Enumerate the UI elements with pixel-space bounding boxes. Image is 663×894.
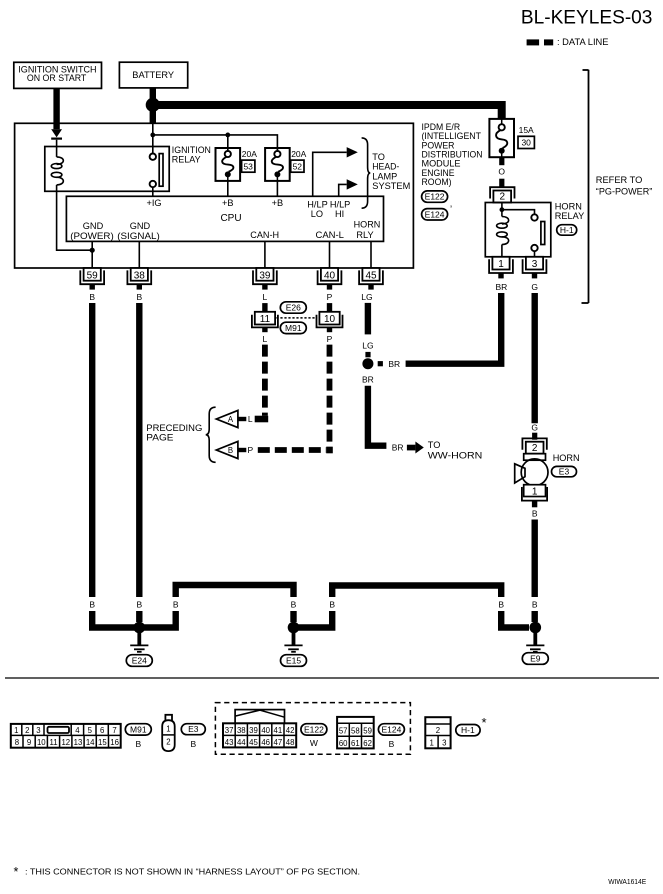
label 20A / 52 bbox=[291, 149, 307, 172]
svg-text:15A: 15A bbox=[519, 125, 534, 135]
svg-text:GND: GND bbox=[130, 221, 151, 231]
svg-text:B: B bbox=[190, 739, 196, 749]
horn circle bbox=[521, 459, 548, 486]
svg-text:7: 7 bbox=[112, 726, 116, 735]
label TO HEAD-LAMP SYSTEM bbox=[372, 152, 410, 191]
tab below horn bbox=[532, 501, 537, 507]
svg-text:BR: BR bbox=[362, 374, 374, 384]
box: BATTERY bbox=[119, 62, 187, 88]
svg-text:60: 60 bbox=[339, 739, 348, 748]
svg-text:H/LP: H/LP bbox=[307, 199, 327, 209]
svg-text:E24: E24 bbox=[132, 656, 147, 666]
svg-text:P: P bbox=[327, 292, 333, 302]
svg-text:39: 39 bbox=[259, 270, 271, 281]
svg-text:38: 38 bbox=[237, 726, 246, 735]
svg-text:E122: E122 bbox=[304, 724, 324, 734]
svg-text:40: 40 bbox=[324, 270, 336, 281]
wire color labels BR / G bbox=[495, 282, 538, 292]
svg-text:M91: M91 bbox=[285, 323, 302, 333]
svg-text:1: 1 bbox=[498, 259, 504, 270]
svg-text:47: 47 bbox=[274, 738, 283, 747]
svg-text:: THIS CONNECTOR IS NOT SHOWN: : THIS CONNECTOR IS NOT SHOWN IN “HARNES… bbox=[25, 867, 360, 877]
svg-text:ON OR START: ON OR START bbox=[27, 73, 87, 83]
bracket: REFER TO PG-POWER bbox=[582, 70, 589, 303]
svg-text:HEAD-: HEAD- bbox=[372, 162, 399, 172]
wire: fuse 53 to +B bbox=[227, 181, 229, 196]
label PRECEDING PAGE bbox=[146, 423, 202, 442]
svg-text:39: 39 bbox=[249, 726, 258, 735]
svg-text:PAGE: PAGE bbox=[146, 432, 173, 442]
wire: GND(POWER) to pin 59 bbox=[91, 241, 93, 268]
wire: coil to pin 1 bbox=[501, 210, 503, 257]
svg-text:L: L bbox=[263, 292, 268, 302]
wire: CAN-H to pin 39 bbox=[264, 241, 266, 268]
svg-text:9: 9 bbox=[27, 738, 31, 747]
svg-text:G: G bbox=[531, 423, 538, 433]
horn body top plate bbox=[524, 454, 546, 461]
svg-text:B: B bbox=[173, 600, 179, 610]
label IPDM E/R (INTELLIGENT POWER DISTRIBUTION MODULE ENGINE ROOM) bbox=[422, 122, 483, 187]
svg-text:57: 57 bbox=[339, 727, 348, 736]
wire BR: splice down to WW-HORN (thick) bbox=[368, 386, 387, 446]
ground E9 bbox=[522, 622, 548, 665]
horn relay pin 2 bbox=[490, 187, 514, 203]
ignition relay coil bbox=[51, 157, 63, 185]
connector pin 10 bbox=[317, 312, 343, 332]
junction: coil return joins GND(POWER) bbox=[90, 248, 95, 253]
brace for preceding page bbox=[206, 407, 216, 462]
svg-text:45: 45 bbox=[249, 738, 258, 747]
svg-text:B: B bbox=[228, 446, 233, 455]
wire: coil to box bottom bbox=[56, 185, 58, 191]
svg-text:11: 11 bbox=[260, 314, 271, 325]
wire: to contact bbox=[502, 210, 535, 215]
svg-text:LG: LG bbox=[362, 341, 373, 351]
svg-text:11: 11 bbox=[49, 738, 57, 747]
data line L (CAN-H) to preceding page A bbox=[262, 345, 268, 416]
svg-text:E124: E124 bbox=[381, 724, 401, 734]
svg-text:2: 2 bbox=[500, 192, 506, 203]
svg-text:8: 8 bbox=[15, 738, 19, 747]
connector detail H-1 bbox=[425, 717, 450, 748]
svg-text:CAN-L: CAN-L bbox=[316, 230, 344, 240]
svg-text:E3: E3 bbox=[559, 467, 570, 477]
svg-text:1: 1 bbox=[166, 725, 170, 734]
svg-text:CPU: CPU bbox=[220, 213, 241, 224]
svg-text:M91: M91 bbox=[130, 724, 147, 734]
svg-text:10: 10 bbox=[324, 314, 336, 325]
box: IGNITION SWITCH ON OR START bbox=[14, 62, 102, 88]
label REFER TO PG-POWER bbox=[596, 175, 653, 197]
connector detail E122 bbox=[223, 710, 296, 748]
wire: pin 2 into relay bbox=[501, 203, 503, 210]
connector label M91 (detail) bbox=[125, 724, 151, 735]
junction dot inside horn relay bbox=[500, 207, 505, 212]
connector detail E124 bbox=[337, 717, 374, 749]
stub to splice bbox=[365, 352, 370, 357]
tab below 15A fuse bbox=[499, 157, 504, 165]
junction: LG/BR splice bbox=[362, 358, 373, 369]
horn relay contact bbox=[531, 214, 544, 251]
svg-text:37: 37 bbox=[225, 726, 234, 735]
svg-text:WW-HORN: WW-HORN bbox=[428, 451, 483, 461]
tab above horn relay pin 2 bbox=[499, 179, 504, 187]
label IGNITION RELAY bbox=[172, 145, 211, 165]
wire: E24 to E15 ground bus (thick) bbox=[139, 611, 175, 628]
svg-text:1: 1 bbox=[532, 487, 538, 498]
stub right of splice bbox=[378, 361, 383, 366]
svg-text:12: 12 bbox=[61, 738, 70, 747]
ground E24 bbox=[126, 622, 152, 667]
svg-text:14: 14 bbox=[86, 738, 95, 747]
label HORN RELAY bbox=[555, 202, 584, 222]
svg-text:B: B bbox=[291, 600, 297, 610]
svg-text:2: 2 bbox=[532, 443, 538, 454]
svg-text:WIWA1614E: WIWA1614E bbox=[608, 877, 646, 886]
svg-text:B: B bbox=[89, 600, 95, 610]
fuse 20A #53 bbox=[216, 148, 241, 181]
ignition relay box bbox=[45, 147, 169, 192]
svg-text:HORN: HORN bbox=[354, 220, 381, 230]
wire: diode to ignition relay coil bbox=[56, 140, 58, 147]
IPDM pin 39 bbox=[253, 268, 277, 290]
svg-text:10: 10 bbox=[37, 738, 46, 747]
svg-text:1: 1 bbox=[14, 726, 18, 735]
svg-text:(POWER): (POWER) bbox=[70, 231, 114, 241]
tab above horn connector 2 bbox=[532, 433, 537, 440]
connector label E122 bbox=[422, 191, 448, 202]
svg-text:G: G bbox=[531, 282, 538, 292]
svg-text:O: O bbox=[498, 167, 505, 177]
connector label M91 bbox=[280, 322, 306, 333]
svg-text:(SIGNAL): (SIGNAL) bbox=[117, 231, 160, 241]
svg-text:41: 41 bbox=[274, 726, 283, 735]
separator line bbox=[5, 677, 659, 679]
svg-text:REFER TO: REFER TO bbox=[596, 175, 643, 185]
svg-text:62: 62 bbox=[363, 739, 372, 748]
svg-text:52: 52 bbox=[293, 161, 303, 171]
svg-text:38: 38 bbox=[134, 270, 146, 281]
svg-text:3: 3 bbox=[532, 259, 538, 270]
connector label E124 bbox=[422, 209, 448, 220]
svg-text:TO: TO bbox=[372, 152, 385, 162]
svg-text:2: 2 bbox=[25, 726, 29, 735]
wire: to ignition relay contact bbox=[152, 135, 154, 153]
wire B: pin 59 to ground E24 (thick) bbox=[89, 303, 95, 597]
svg-text:E26: E26 bbox=[286, 303, 301, 313]
horn pin 1 outer cup bbox=[522, 487, 547, 501]
label TO WW-HORN bbox=[428, 440, 483, 461]
junction dot at fuse 53 feed bbox=[225, 133, 230, 138]
svg-text:L: L bbox=[263, 334, 268, 344]
svg-text:2: 2 bbox=[166, 738, 170, 747]
svg-text:: DATA LINE: : DATA LINE bbox=[557, 37, 609, 47]
wire LG: pin 45 down (thick) bbox=[365, 303, 371, 335]
dashed group box for IPDM connectors bbox=[215, 703, 410, 755]
wire: battery feed (thick) bbox=[150, 88, 156, 123]
wire into coil bbox=[56, 147, 58, 157]
wire: H/LP LO to headlamp system bbox=[313, 152, 347, 196]
svg-text:16: 16 bbox=[110, 738, 119, 747]
svg-text:L: L bbox=[248, 414, 253, 424]
IPDM E/R outer box bbox=[15, 123, 414, 268]
fuse 20A #52 bbox=[265, 148, 290, 181]
svg-text:B: B bbox=[498, 600, 504, 610]
svg-text:59: 59 bbox=[87, 270, 99, 281]
horn relay box bbox=[485, 203, 551, 257]
svg-text:BATTERY: BATTERY bbox=[132, 70, 174, 80]
svg-text:LAMP: LAMP bbox=[372, 171, 397, 181]
wire BR: splice to horn relay pin 1 (thick) bbox=[406, 293, 502, 364]
svg-text:58: 58 bbox=[351, 727, 360, 736]
svg-text:IGNITION: IGNITION bbox=[172, 145, 211, 155]
wire: +B distribution inside IPDM bbox=[152, 123, 154, 135]
B labels near grounds bbox=[89, 600, 538, 610]
wire color labels below IPDM pins bbox=[89, 292, 372, 302]
horn relay pin 1 bbox=[489, 257, 513, 279]
svg-text:LO: LO bbox=[311, 209, 323, 219]
svg-text:GND: GND bbox=[83, 221, 104, 231]
diode (one-way feed) inside IPDM bbox=[51, 129, 62, 139]
svg-text:1: 1 bbox=[430, 739, 434, 748]
ground E15 bbox=[281, 622, 307, 667]
connector detail E3 (capsule) bbox=[162, 715, 175, 751]
wire: contact to pin 3 bbox=[534, 251, 536, 257]
svg-text:TO: TO bbox=[428, 440, 441, 450]
svg-text:61: 61 bbox=[351, 739, 360, 748]
arrow TO WW-HORN bbox=[407, 442, 424, 454]
svg-text:B: B bbox=[135, 739, 141, 749]
horn relay coil bbox=[497, 217, 509, 245]
connector detail M91 bbox=[11, 724, 121, 748]
svg-text:BR: BR bbox=[388, 359, 400, 369]
svg-text:P: P bbox=[327, 334, 333, 344]
svg-text:H/LP: H/LP bbox=[330, 199, 350, 209]
wire: H/LP HI to headlamp system bbox=[339, 184, 347, 196]
svg-text:E124: E124 bbox=[425, 209, 445, 219]
svg-text:42: 42 bbox=[286, 726, 295, 735]
svg-text:H-1: H-1 bbox=[560, 225, 574, 235]
junction dot at relay contact feed bbox=[150, 133, 155, 138]
label 15A / 30 bbox=[518, 125, 534, 149]
svg-text:BL-KEYLES-03: BL-KEYLES-03 bbox=[521, 6, 653, 28]
svg-text:40: 40 bbox=[261, 726, 270, 735]
IPDM pin 38 bbox=[127, 268, 151, 290]
svg-text:E15: E15 bbox=[286, 656, 301, 666]
svg-text:48: 48 bbox=[286, 738, 295, 747]
svg-text:B: B bbox=[532, 509, 538, 519]
top tab of connector 10 bbox=[327, 303, 332, 312]
svg-text:E9: E9 bbox=[530, 654, 541, 664]
ignition relay contact bbox=[150, 154, 163, 188]
svg-text:3: 3 bbox=[36, 726, 40, 735]
arrow: H/LP LO bbox=[347, 147, 358, 157]
svg-text:13: 13 bbox=[74, 738, 83, 747]
svg-text:,: , bbox=[450, 199, 453, 209]
svg-text:P: P bbox=[247, 445, 253, 455]
svg-text:ROOM): ROOM) bbox=[422, 177, 452, 187]
svg-text:+B: +B bbox=[272, 198, 284, 208]
label 20A / 53 bbox=[242, 149, 258, 172]
svg-text:BR: BR bbox=[495, 282, 507, 292]
connector label E122 (detail) bbox=[301, 724, 327, 735]
wire G: horn relay pin 3 to horn (thick) bbox=[532, 293, 538, 423]
wire B: pin 38 to ground E24 (thick) bbox=[136, 303, 142, 597]
svg-text:BR: BR bbox=[392, 443, 404, 453]
wire: fuse 52 to +B bbox=[276, 181, 278, 196]
svg-text:15: 15 bbox=[98, 738, 107, 747]
svg-text:CAN-H: CAN-H bbox=[250, 230, 279, 240]
svg-text:5: 5 bbox=[88, 726, 93, 735]
svg-text:4: 4 bbox=[75, 726, 80, 735]
legend: data line sample bbox=[527, 37, 609, 47]
svg-text:RLY: RLY bbox=[356, 230, 373, 240]
arrow A (from preceding page) bbox=[216, 410, 246, 427]
svg-text:B: B bbox=[136, 292, 142, 302]
connector pin 11 bbox=[252, 312, 278, 332]
svg-text:SYSTEM: SYSTEM bbox=[372, 181, 410, 191]
wire color labels below connectors 11/10 bbox=[263, 334, 333, 344]
footnote bbox=[14, 865, 361, 879]
svg-text:HORN: HORN bbox=[553, 453, 580, 463]
dashed link between connectors 11 and 10 bbox=[276, 317, 317, 319]
wire: CAN-L to pin 40 bbox=[329, 241, 331, 268]
horn bottom plate pin 1 bbox=[524, 485, 546, 498]
wire: HORN RLY to pin 45 bbox=[370, 241, 372, 268]
connector label H-1 bbox=[557, 225, 577, 236]
svg-text:*: * bbox=[14, 865, 19, 879]
wire B: horn to ground E9 (thick) bbox=[532, 520, 538, 598]
arrow: H/LP HI bbox=[347, 179, 358, 189]
svg-text:+IG: +IG bbox=[146, 198, 161, 208]
svg-text:B: B bbox=[89, 292, 95, 302]
brace: TO HEAD-LAMP SYSTEM bbox=[362, 138, 371, 208]
svg-text:RELAY: RELAY bbox=[555, 211, 584, 221]
svg-text:45: 45 bbox=[365, 270, 377, 281]
svg-text:B: B bbox=[136, 600, 142, 610]
svg-text:H-1: H-1 bbox=[461, 725, 475, 735]
svg-text:6: 6 bbox=[100, 726, 104, 735]
svg-text:3: 3 bbox=[442, 739, 446, 748]
svg-text:44: 44 bbox=[237, 738, 246, 747]
top tab of connector 11 bbox=[262, 303, 267, 312]
connector label E26 bbox=[280, 302, 306, 313]
svg-text:E122: E122 bbox=[425, 192, 445, 202]
svg-text:B: B bbox=[532, 600, 538, 610]
svg-text:46: 46 bbox=[261, 738, 270, 747]
svg-text:HORN: HORN bbox=[555, 202, 582, 212]
IPDM pin 59 bbox=[80, 268, 104, 290]
connector label H-1 (detail) bbox=[456, 725, 480, 736]
svg-text:B: B bbox=[329, 600, 335, 610]
svg-text:LG: LG bbox=[361, 292, 372, 302]
svg-text:*: * bbox=[482, 715, 487, 730]
connector label E3 at horn bbox=[552, 466, 577, 476]
svg-text:59: 59 bbox=[363, 727, 372, 736]
horn cone bbox=[515, 464, 525, 483]
connector label E124 (detail) bbox=[378, 724, 404, 735]
svg-text:HI: HI bbox=[335, 209, 344, 219]
svg-text:20A: 20A bbox=[242, 149, 257, 159]
svg-text:B: B bbox=[389, 739, 395, 749]
svg-text:“PG-POWER”: “PG-POWER” bbox=[596, 187, 653, 197]
svg-text:E3: E3 bbox=[188, 724, 199, 734]
connector label E3 (detail) bbox=[181, 724, 205, 735]
svg-text:RELAY: RELAY bbox=[172, 155, 201, 165]
svg-text:2: 2 bbox=[436, 726, 440, 735]
CPU box inside IPDM bbox=[66, 196, 383, 241]
fuse 15A #30 bbox=[489, 119, 514, 157]
wire: battery bus to 15A fuse (thick) bbox=[153, 105, 502, 119]
svg-text:53: 53 bbox=[243, 161, 253, 171]
svg-text:43: 43 bbox=[225, 738, 234, 747]
svg-text:20A: 20A bbox=[291, 149, 306, 159]
arrow B (from preceding page) bbox=[216, 441, 246, 458]
pin labels on CPU box bbox=[70, 198, 380, 241]
wire: ignition switch feed (thick) bbox=[53, 88, 59, 129]
svg-text:30: 30 bbox=[521, 138, 531, 148]
horn relay pin 3 bbox=[523, 257, 547, 279]
horn connector pin 2 bbox=[522, 438, 546, 454]
wire: E15 to E9 ground bus (thick) bbox=[294, 611, 333, 628]
wire: relay contact to +IG bbox=[152, 187, 154, 196]
IPDM pin 40 bbox=[318, 268, 342, 290]
svg-text:A: A bbox=[228, 415, 234, 424]
svg-text:W: W bbox=[310, 738, 318, 748]
data line P (CAN-L) to preceding page B bbox=[327, 345, 333, 447]
junction: battery splice bbox=[146, 98, 160, 112]
IPDM pin 45 bbox=[359, 268, 383, 290]
wire: relay coil return to GND(POWER) bbox=[57, 191, 93, 250]
svg-text:+B: +B bbox=[222, 198, 234, 208]
wire: GND(SIGNAL) to pin 38 bbox=[138, 241, 140, 268]
